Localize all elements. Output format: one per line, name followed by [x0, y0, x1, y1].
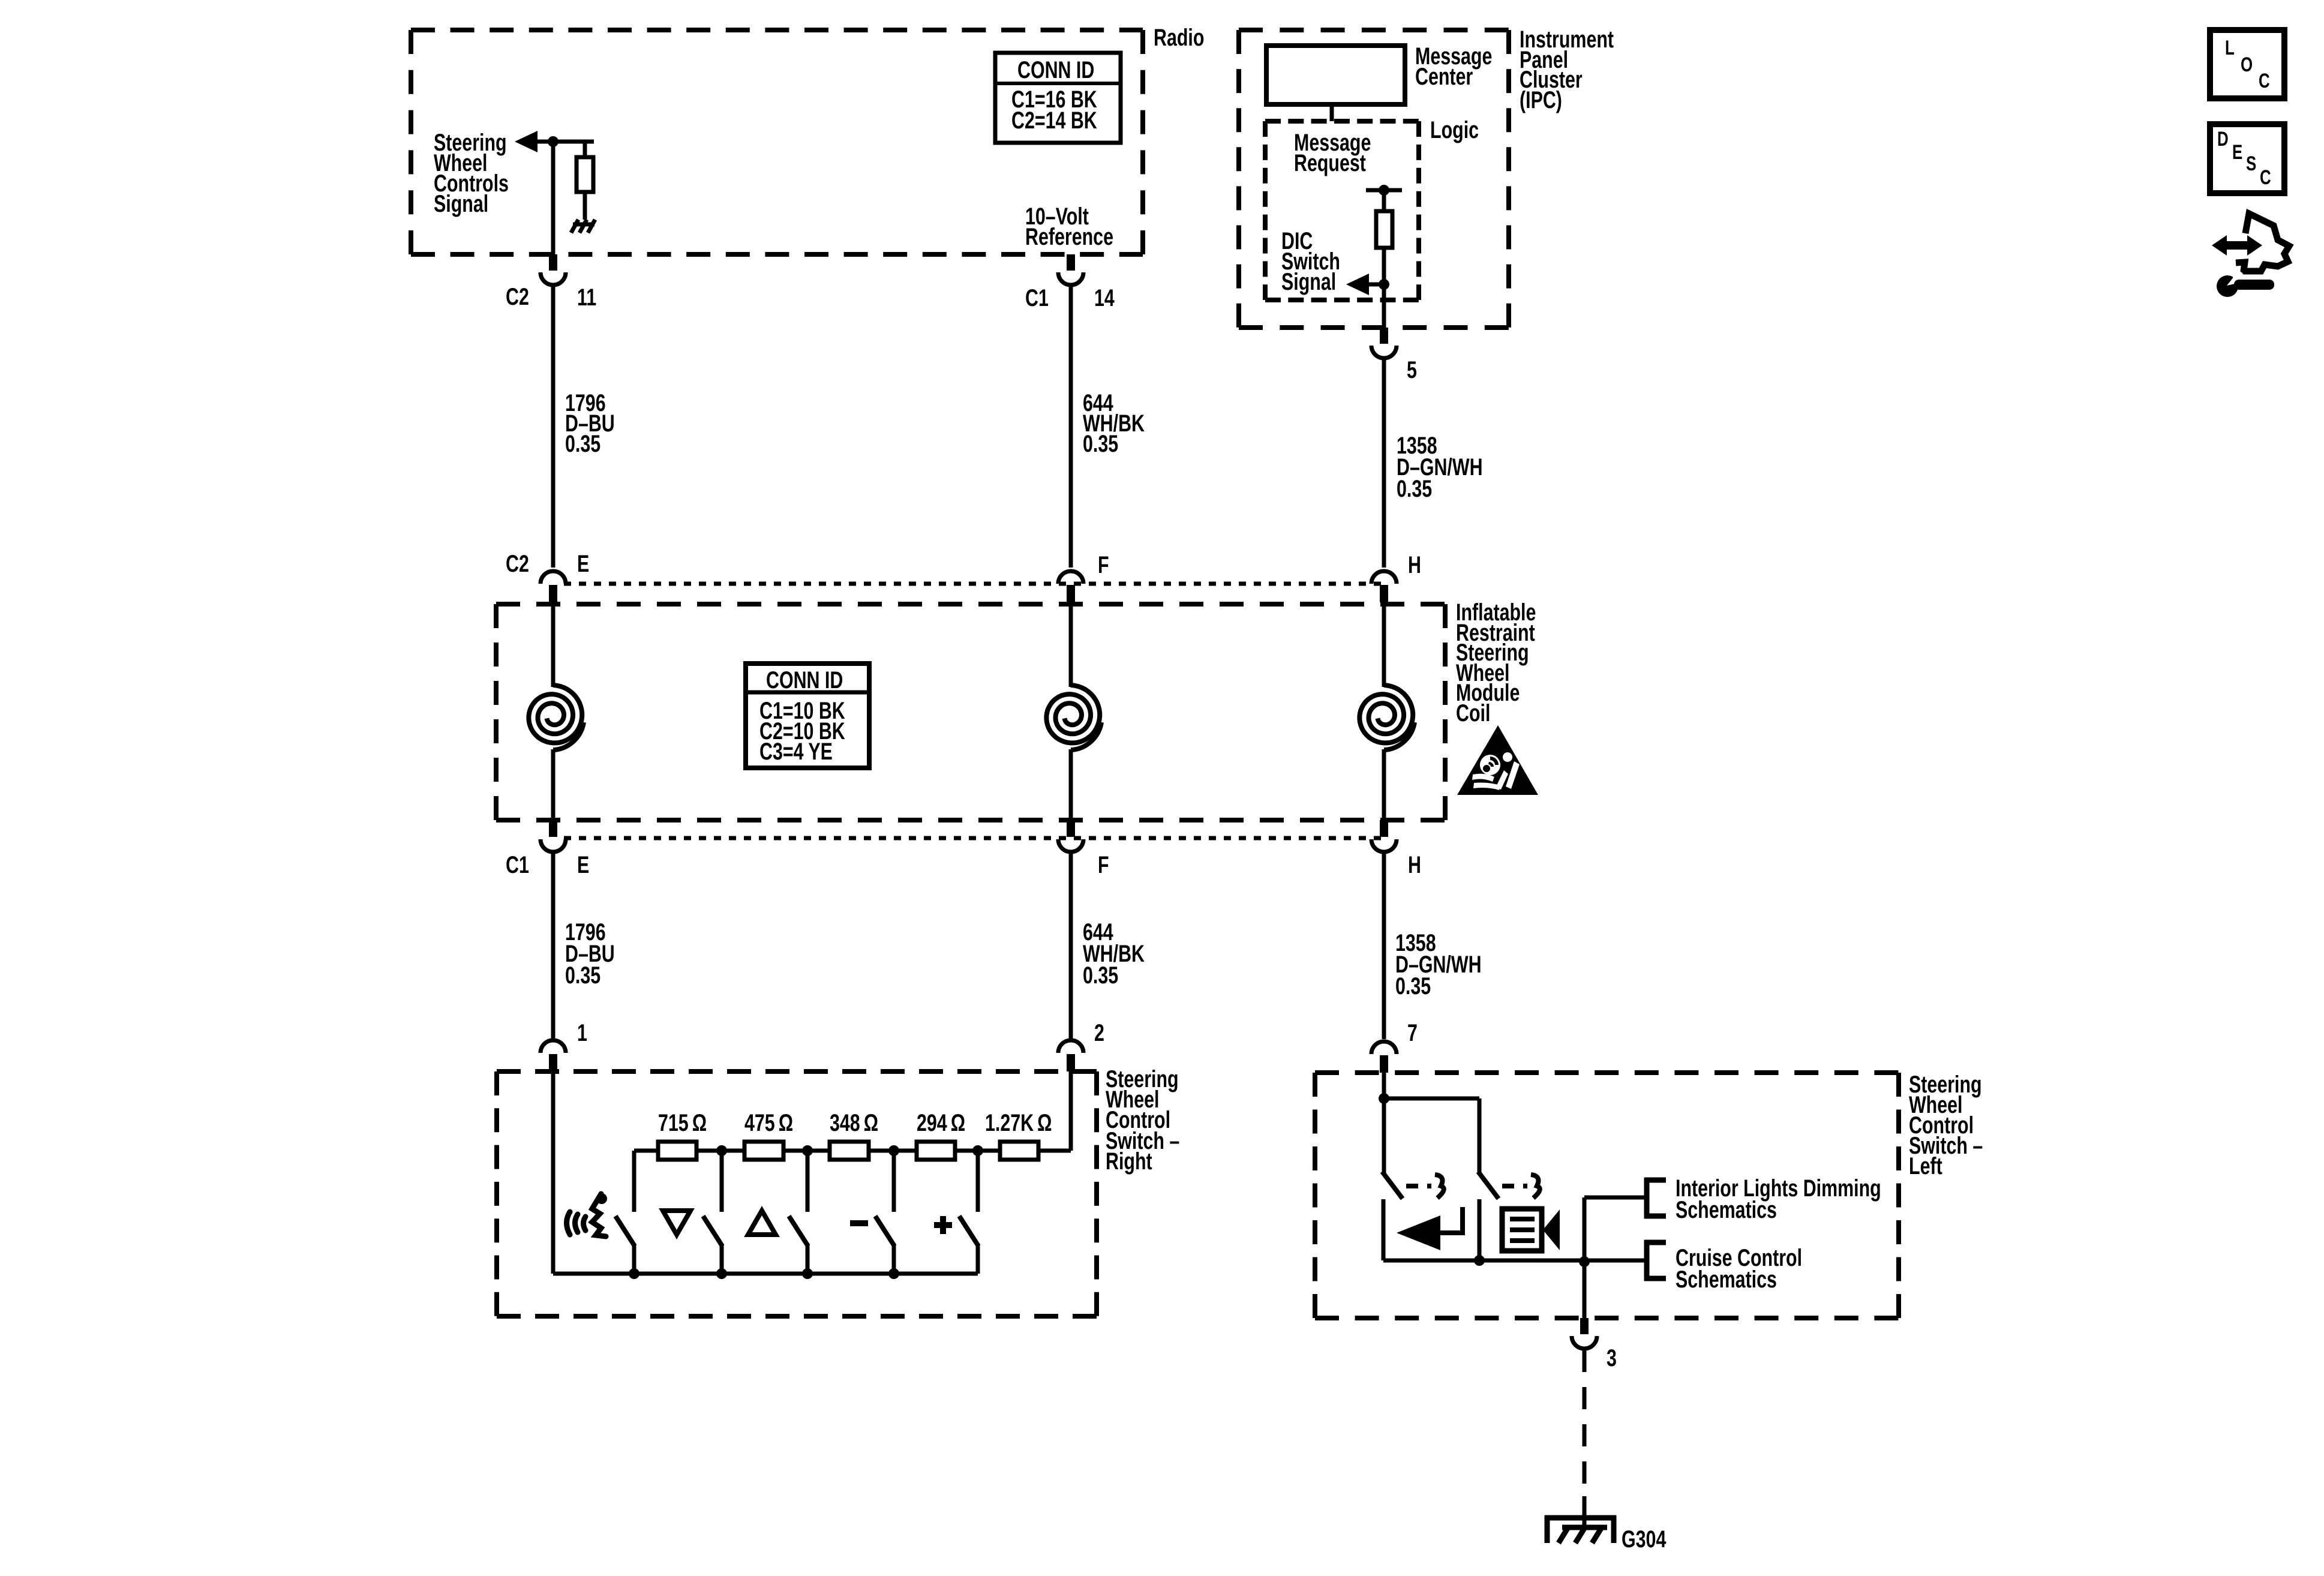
- connector C2 pin 11 (Radio): [549, 254, 557, 271]
- wire: steering wheel controls signal stub: [527, 140, 594, 144]
- label pin 2: [1094, 1019, 1104, 1046]
- node: top of DIC resistor: [1379, 185, 1389, 196]
- connector cavity F (coil top): [1058, 571, 1083, 584]
- label cavity E (top): [577, 550, 589, 577]
- node: DIC switch signal junction: [1379, 279, 1389, 290]
- wire: second switch upper: [1478, 1098, 1482, 1173]
- wire: pin 1 to switch bus: [551, 1071, 556, 1274]
- node: bus junction: [716, 1268, 727, 1279]
- wire: switch 1 lower: [1382, 1199, 1386, 1260]
- wire 644 WH/BK lower: [1069, 852, 1073, 1039]
- switch stub: seek down: [720, 1151, 724, 1212]
- label 10-Volt Reference: [1025, 203, 1089, 230]
- wire out of coil 1: [551, 749, 556, 820]
- wire 1358 D-GN/WH lower: [1382, 852, 1386, 1039]
- svg-text:E: E: [2232, 142, 2242, 164]
- label pin 14: [1094, 284, 1115, 311]
- svg-text:S: S: [2246, 153, 2256, 175]
- wire 1358 D-GN/WH upper: [1382, 360, 1386, 568]
- linkage end curl (switch 1): [1435, 1175, 1444, 1198]
- connector pin (coil module exit): [549, 820, 557, 837]
- LOC navigation box: [2210, 30, 2284, 98]
- resistor (Radio internal pull-up): [577, 157, 593, 192]
- node: bus junction (switch 2): [1474, 1255, 1485, 1266]
- label pin 1: [577, 1019, 587, 1046]
- label C1 (coil bottom): [506, 851, 529, 878]
- switch: volume up: [959, 1216, 978, 1246]
- svg-text:Left: Left: [1909, 1152, 1942, 1179]
- resistor 1.27K ohm: [1000, 1142, 1038, 1160]
- mechanical linkage dashes (switch 1): [1406, 1184, 1431, 1188]
- svg-text:CONN ID: CONN ID: [766, 667, 843, 694]
- label cavity H (bottom): [1408, 851, 1421, 878]
- svg-text:C1: C1: [1025, 284, 1049, 311]
- svg-text:L: L: [2225, 37, 2235, 59]
- svg-text:2: 2: [1094, 1019, 1104, 1046]
- connector C1 pin 14 (Radio): [1067, 254, 1075, 271]
- wire: resistor chain to pin 2: [1040, 1149, 1071, 1153]
- label CONN ID (Radio): [1017, 56, 1094, 83]
- label Steering Wheel Controls Signal: [434, 129, 507, 156]
- svg-text:Schematics: Schematics: [1676, 1196, 1777, 1223]
- label C1: [1025, 284, 1049, 311]
- label C2: [506, 283, 529, 310]
- coil winding 2 (SRS coil): [1046, 685, 1100, 743]
- label 1.27K ohm: [985, 1109, 1052, 1136]
- wire: branch to second switch: [1384, 1097, 1479, 1101]
- switch: seek up: [789, 1216, 808, 1246]
- icon: seek down triangle: [663, 1211, 690, 1235]
- label cavity H (top): [1408, 551, 1421, 578]
- svg-text:Schematics: Schematics: [1676, 1266, 1777, 1293]
- label C2=10 BK: [759, 718, 845, 745]
- linkage end curl (switch 2): [1531, 1175, 1540, 1198]
- label C3=4 YE: [759, 738, 833, 765]
- ground G304: [1545, 1515, 1616, 1543]
- node: bus junction: [802, 1268, 813, 1279]
- svg-text:294 Ω: 294 Ω: [917, 1109, 965, 1136]
- resistor (IPC pull-up): [1376, 211, 1392, 248]
- svg-text:0.35: 0.35: [1083, 962, 1118, 989]
- in-line connector row (top of coil module): [564, 582, 1386, 586]
- icon: plus (volume up): [934, 1222, 952, 1228]
- label 348 ohm: [830, 1109, 878, 1136]
- svg-text:Right: Right: [1106, 1148, 1152, 1175]
- svg-text:Signal: Signal: [1281, 268, 1336, 295]
- wire: bus to pin 3: [1583, 1262, 1587, 1318]
- wire: first switch upper: [1382, 1098, 1386, 1173]
- wire chain seg 1: [696, 1149, 744, 1153]
- switch: DIC select (left): [1382, 1172, 1403, 1199]
- label wire 1796 D-BU 0.35 lower: [565, 918, 606, 945]
- svg-text:(IPC): (IPC): [1520, 86, 1562, 113]
- icon: menu list with cursor: [1502, 1209, 1542, 1251]
- label Logic: [1430, 116, 1479, 143]
- svg-text:1.27K Ω: 1.27K Ω: [985, 1109, 1052, 1136]
- node chain junction D: [972, 1145, 983, 1156]
- coil winding 3 (SRS coil): [1359, 685, 1413, 743]
- wire 1796 D-BU lower: [551, 852, 556, 1039]
- label 294 ohm: [917, 1109, 965, 1136]
- icon: voice recognition (speaking head): [567, 1194, 606, 1236]
- svg-text:475 Ω: 475 Ω: [744, 1109, 793, 1136]
- wire: switch-right common bus: [553, 1272, 978, 1276]
- connector pin (coil module exit): [1067, 820, 1075, 837]
- wire: DIC switch signal stub: [1358, 283, 1384, 287]
- wire: switch-left common bus: [1383, 1259, 1644, 1263]
- wire: pin 7 into box: [1382, 1073, 1386, 1098]
- mechanical linkage dashes (switch 2): [1502, 1184, 1527, 1188]
- node: bus junction: [888, 1268, 899, 1279]
- label CONN ID (module): [766, 667, 843, 694]
- label Radio: [1154, 24, 1204, 51]
- label 475 ohm: [744, 1109, 793, 1136]
- ground (Radio internal): [571, 220, 595, 233]
- label Steering Wheel Control Switch - Right: [1106, 1065, 1179, 1092]
- switch: volume down: [875, 1216, 894, 1246]
- svg-text:7: 7: [1407, 1019, 1418, 1046]
- label Message Center: [1415, 43, 1492, 70]
- svg-text:F: F: [1098, 851, 1109, 878]
- resistor 475 ohm: [744, 1142, 783, 1160]
- label C2=14 BK: [1011, 107, 1097, 134]
- coil winding 1 (SRS coil): [529, 685, 582, 743]
- svg-text:C2=14 BK: C2=14 BK: [1011, 107, 1097, 134]
- label wire 1358 D-GN/WH 0.35 upper: [1397, 432, 1437, 459]
- wire: switch 2 lower: [1478, 1199, 1482, 1260]
- switch: voice recognition: [615, 1216, 635, 1246]
- connector pin 2 (switch right): [1058, 1040, 1083, 1053]
- Instrument Panel Cluster dashed box: [1239, 28, 1509, 32]
- svg-text:H: H: [1408, 851, 1421, 878]
- icon: seek up triangle: [748, 1211, 776, 1235]
- label pin 11: [577, 284, 596, 311]
- svg-text:Signal: Signal: [434, 190, 488, 217]
- svg-text:11: 11: [577, 284, 596, 311]
- wire: pin 3 to ground (unspecified splice): [1583, 1350, 1587, 1500]
- svg-text:Logic: Logic: [1430, 116, 1479, 143]
- off-page bracket: Cruise Control: [1644, 1240, 1650, 1281]
- connector pin 7 (switch left): [1371, 1041, 1397, 1054]
- svg-text:0.35: 0.35: [565, 430, 600, 457]
- node: junction at Radio signal: [548, 136, 559, 147]
- svg-text:14: 14: [1094, 284, 1115, 311]
- label cavity F (top): [1098, 551, 1109, 578]
- wire: pin 2 down to resistor chain: [1069, 1071, 1073, 1151]
- off-page bracket: Interior Lights Dimming: [1644, 1178, 1650, 1218]
- icon: return/select arrow: [1397, 1215, 1440, 1250]
- connector pin (coil module exit): [1380, 820, 1388, 837]
- wire: 1796 D-BU inside Radio: [551, 142, 556, 254]
- label 715 ohm: [658, 1109, 707, 1136]
- label C1=16 BK: [1011, 86, 1097, 113]
- svg-text:C3=4 YE: C3=4 YE: [759, 738, 833, 765]
- svg-text:C: C: [2259, 70, 2270, 92]
- switch stub: volume down: [892, 1151, 896, 1212]
- svg-text:Coil: Coil: [1456, 700, 1490, 727]
- label Instrument Panel Cluster (IPC): [1520, 26, 1614, 53]
- connector pin 3 (switch left): [1580, 1318, 1589, 1334]
- wire to resistor (IPC): [1382, 190, 1386, 211]
- svg-text:348 Ω: 348 Ω: [830, 1109, 878, 1136]
- wire chain seg 3: [869, 1149, 917, 1153]
- wire out of coil 2: [1069, 749, 1073, 820]
- wire into coil 1: [551, 602, 556, 687]
- svg-text:715 Ω: 715 Ω: [658, 1109, 707, 1136]
- svg-text:Reference: Reference: [1025, 223, 1113, 250]
- resistor 715 ohm: [658, 1142, 696, 1160]
- switch stub: seek up: [806, 1151, 810, 1212]
- svg-text:Radio: Radio: [1154, 24, 1204, 51]
- svg-text:E: E: [577, 851, 589, 878]
- resistor 348 ohm: [830, 1142, 869, 1160]
- wire to resistor (Radio): [583, 142, 587, 157]
- label wire 644 WH/BK 0.35 lower: [1083, 918, 1113, 945]
- resistor 294 ohm: [917, 1142, 955, 1160]
- node chain junction A: [716, 1145, 727, 1156]
- svg-text:C1: C1: [506, 851, 529, 878]
- switch stub: voice: [632, 1151, 636, 1212]
- svg-text:0.35: 0.35: [1083, 430, 1118, 457]
- switch: DIC scroll (right): [1478, 1172, 1499, 1199]
- label cavity E (bottom): [577, 851, 589, 878]
- wire into coil 2: [1069, 602, 1073, 687]
- label DIC Switch Signal: [1281, 227, 1313, 254]
- CONN ID table (Radio): [995, 53, 1121, 143]
- label Inflatable Restraint Steering Wheel Module Coil: [1456, 599, 1536, 626]
- connector pin 1 (switch right): [541, 1040, 566, 1053]
- connector C2 cavity E (coil top): [541, 571, 566, 584]
- svg-text:0.35: 0.35: [565, 962, 600, 989]
- wire into coil 3: [1382, 602, 1386, 687]
- wire chain seg 4: [955, 1149, 1000, 1153]
- service tool icon (arrow, part outline, wrench): [2236, 214, 2289, 271]
- wire 1796 D-BU upper: [551, 287, 556, 568]
- wire: resistor to IPC pin 5: [1382, 248, 1386, 328]
- svg-text:Center: Center: [1415, 63, 1473, 90]
- DESC navigation box: [2210, 124, 2284, 193]
- Message Center display box: [1266, 46, 1405, 104]
- label Message Request: [1294, 129, 1371, 156]
- wire: feed to interior lights bracket: [1584, 1196, 1644, 1200]
- Logic dashed box: [1265, 119, 1419, 124]
- wire out of coil 3: [1382, 749, 1386, 820]
- node: bus junction: [629, 1268, 639, 1279]
- Inflatable Restraint Steering Wheel Module Coil dashed box: [496, 602, 1445, 607]
- Radio component dashed box: [411, 28, 1143, 32]
- switch: seek down: [703, 1216, 722, 1246]
- svg-text:E: E: [577, 550, 589, 577]
- svg-text:3: 3: [1607, 1344, 1617, 1371]
- icon: minus (volume down): [850, 1220, 868, 1226]
- wire: ground stem: [1583, 1496, 1587, 1528]
- label Steering Wheel Control Switch - Left: [1909, 1071, 1982, 1098]
- arrowhead pointing left (IPC): [1346, 274, 1369, 295]
- svg-text:0.35: 0.35: [1395, 972, 1431, 999]
- svg-text:C2: C2: [506, 283, 529, 310]
- CONN ID table (coil module): [746, 664, 869, 768]
- svg-text:5: 5: [1407, 356, 1417, 383]
- arrowhead pointing left (Radio): [515, 131, 538, 152]
- Steering Wheel Control Switch - Left dashed box: [1315, 1070, 1899, 1075]
- label wire 1358 D-GN/WH 0.35 lower: [1395, 929, 1436, 956]
- label C1=10 BK: [759, 697, 845, 724]
- label pin 3: [1607, 1344, 1617, 1371]
- label cavity F (bottom): [1098, 851, 1109, 878]
- wire chain seg 2: [783, 1149, 830, 1153]
- label G304: [1622, 1526, 1667, 1553]
- svg-text:H: H: [1408, 551, 1421, 578]
- wire: message center to logic: [1330, 104, 1334, 121]
- label wire 644 WH/BK 0.35 upper: [1083, 389, 1113, 416]
- label pin 7: [1407, 1019, 1418, 1046]
- wire: message request bar: [1366, 188, 1402, 193]
- svg-text:C: C: [2260, 167, 2271, 189]
- label Interior Lights Dimming Schematics: [1676, 1175, 1881, 1202]
- node: bus junction (output riser): [1579, 1256, 1590, 1267]
- svg-text:0.35: 0.35: [1397, 475, 1432, 502]
- connector cavity H (coil top): [1371, 571, 1397, 584]
- svg-text:C2: C2: [506, 550, 529, 577]
- svg-text:D: D: [2217, 128, 2229, 151]
- SRS airbag warning triangle icon: [1457, 725, 1538, 795]
- label Cruise Control Schematics: [1676, 1244, 1802, 1271]
- svg-text:G304: G304: [1622, 1526, 1667, 1553]
- Steering Wheel Control Switch - Right dashed box: [497, 1069, 1097, 1074]
- label C2 (coil top): [506, 550, 529, 577]
- wire chain left end: [634, 1149, 658, 1153]
- label wire 1796 D-BU 0.35 upper: [565, 389, 606, 416]
- wire resistor to ground: [583, 192, 587, 220]
- svg-text:F: F: [1098, 551, 1109, 578]
- node chain junction C: [888, 1145, 899, 1156]
- svg-text:O: O: [2241, 54, 2253, 76]
- switch stub: volume up: [976, 1151, 980, 1212]
- wire: riser to interior lights feed: [1583, 1197, 1587, 1260]
- svg-text:CONN ID: CONN ID: [1017, 56, 1094, 83]
- in-line connector row (bottom of coil module): [564, 836, 1386, 840]
- node chain junction B: [802, 1145, 813, 1156]
- svg-text:Request: Request: [1294, 149, 1366, 176]
- label pin 5: [1407, 356, 1417, 383]
- wire 644 WH/BK upper: [1069, 287, 1073, 568]
- svg-text:1: 1: [577, 1019, 587, 1046]
- node: pin 7 branch: [1379, 1093, 1389, 1104]
- connector pin 5 (IPC): [1380, 328, 1388, 344]
